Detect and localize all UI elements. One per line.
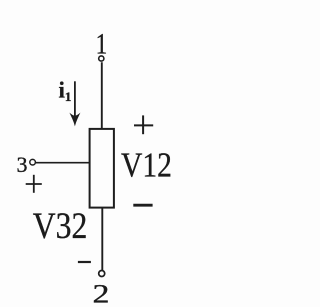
svg-text:V12: V12 — [121, 146, 172, 185]
svg-text:3: 3 — [17, 152, 28, 177]
svg-text:V32: V32 — [33, 205, 88, 246]
svg-text:2: 2 — [93, 279, 110, 307]
element box — [90, 129, 114, 208]
minus sign (V32 -) — [78, 261, 91, 263]
terminal 3 — [30, 159, 36, 165]
svg-text:1: 1 — [96, 27, 108, 60]
node 1 label — [96, 27, 108, 60]
minus sign (V12 -) — [133, 204, 152, 207]
wire box bottom to terminal 2 — [101, 208, 103, 271]
terminal 2 — [99, 271, 105, 277]
svg-text:1: 1 — [65, 89, 72, 104]
plus sign (V12 +) — [134, 115, 153, 134]
terminal 1 — [99, 56, 104, 61]
wire terminal 3 to box left — [36, 162, 90, 164]
current arrow i1 — [74, 81, 76, 118]
node 2 label — [93, 279, 110, 307]
plus sign (V32 +) — [26, 175, 42, 193]
wire terminal 1 to box top — [101, 62, 103, 129]
